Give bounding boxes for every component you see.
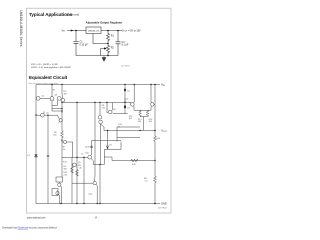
resistor R19 bbox=[131, 159, 138, 162]
transistor Q1 bbox=[36, 97, 40, 101]
resistor R6 bbox=[61, 131, 64, 157]
wire: x155 right vertical bbox=[154, 85, 156, 137]
svg-text:(Continued): (Continued) bbox=[66, 14, 79, 17]
transistor Q2 bbox=[50, 97, 54, 101]
resistor R10 bbox=[76, 170, 79, 177]
svg-text:1.4k: 1.4k bbox=[102, 107, 106, 109]
vertical x62 top bbox=[61, 85, 64, 114]
diode blob lower bbox=[124, 106, 126, 108]
wire: x62 mid bbox=[61, 111, 63, 131]
wire: input bbox=[67, 30, 86, 32]
wire: resistor join bbox=[140, 116, 148, 118]
transistor Q14 bbox=[93, 182, 96, 185]
diode D3 bbox=[106, 131, 108, 150]
svg-text:2k: 2k bbox=[118, 126, 120, 128]
resistor R2 bbox=[107, 44, 110, 56]
transistor Q3 bbox=[57, 97, 61, 101]
wiper arrowhead bbox=[104, 47, 107, 49]
svg-text:40k: 40k bbox=[64, 93, 67, 95]
transistor Q8 bbox=[109, 110, 113, 114]
svg-text:VOUT = 5V + (5V/R1 + IQ) R2: VOUT = 5V + (5V/R1 + IQ) R2 bbox=[31, 64, 58, 66]
wire: bottom rail bbox=[36, 203, 160, 205]
capacitor C1 plates bbox=[74, 41, 79, 43]
wire: Q1 base row bbox=[40, 97, 50, 99]
svg-text:3k: 3k bbox=[79, 167, 81, 169]
wire: q8 collector row bbox=[113, 113, 128, 115]
zener D1 bbox=[35, 155, 38, 158]
wire: x95 vertical bbox=[94, 103, 96, 182]
wire: y140.5 bus bbox=[92, 141, 122, 156]
junction dots equivalent circuit bbox=[35, 84, 156, 205]
tiny labels equivalent circuit bbox=[27, 90, 161, 196]
wire: d3 row bbox=[104, 142, 121, 165]
svg-text:LM340L-05: LM340L-05 bbox=[88, 30, 100, 32]
wire: gnd pin to divider bbox=[93, 34, 108, 44]
wire: wiper of R2 bbox=[101, 49, 105, 56]
wire: y137.5 link bbox=[117, 137, 140, 139]
transistor Q11 bbox=[59, 119, 62, 122]
svg-text:2k: 2k bbox=[124, 101, 126, 103]
wire: x77 vertical bbox=[76, 103, 78, 204]
wire: top rail bbox=[36, 84, 160, 86]
resistor R20 bbox=[154, 136, 157, 176]
transistor Q2L bbox=[41, 113, 45, 117]
capacitor C2 lead bbox=[117, 31, 119, 56]
capacitor C1 lead bbox=[75, 31, 77, 56]
svg-text:0.33 μF: 0.33 μF bbox=[80, 43, 89, 46]
capacitor C1 comp plates bbox=[90, 146, 93, 148]
svg-text:0.1 μF: 0.1 μF bbox=[122, 44, 129, 47]
svg-text:www.national.com: www.national.com bbox=[27, 217, 46, 220]
wire: x107 vertical bbox=[107, 103, 108, 113]
svg-text:C1: C1 bbox=[81, 154, 83, 156]
transistor Q13 box bbox=[52, 189, 58, 196]
transistor Q6 bbox=[98, 116, 102, 120]
transistor Q13 bbox=[56, 192, 59, 195]
svg-text:2k: 2k bbox=[63, 149, 65, 151]
diode blob upper bbox=[124, 89, 126, 91]
svg-text:00778617: 00778617 bbox=[121, 66, 131, 68]
wire: Q17 base from bus bbox=[130, 103, 132, 105]
resistor R9 bbox=[71, 167, 74, 174]
svg-text:Equivalent Circuit: Equivalent Circuit bbox=[29, 75, 68, 80]
wire: x100 vertical top bbox=[99, 103, 101, 116]
transistor Q7 bbox=[99, 120, 103, 124]
page frame bbox=[27, 8, 172, 213]
transistor Q9 bbox=[73, 163, 77, 167]
regulator box U1 bbox=[86, 27, 101, 34]
wire: x84 down bbox=[83, 157, 85, 203]
wire: y108.5 row bbox=[52, 108, 62, 110]
transistor Q18 bbox=[151, 103, 155, 107]
transistor Q17 bbox=[131, 103, 135, 107]
wire: y115 row bbox=[44, 115, 59, 119]
transistor Q7A bbox=[63, 140, 66, 143]
svg-text:5V/R1 > 3 IQ, load regulation: 5V/R1 > 3 IQ, load regulation ≈ (R1+R2)/… bbox=[31, 66, 72, 69]
wire: x117 mid bbox=[116, 127, 118, 142]
note lines under circuit bbox=[31, 64, 72, 69]
wire: x100 down bbox=[99, 165, 101, 204]
wire: y164.5 bbox=[93, 164, 104, 166]
svg-text:Downloaded from Elcodis.com el: Downloaded from Elcodis.com electronic c… bbox=[2, 226, 57, 229]
svg-text:Adjustable Output Regulator: Adjustable Output Regulator bbox=[86, 21, 123, 25]
transistor Q12 bbox=[58, 183, 61, 186]
zener D2 column bbox=[124, 85, 126, 114]
svg-text:00778622: 00778622 bbox=[158, 208, 168, 210]
wire: emitter drops bbox=[52, 101, 58, 109]
wire: y127 link bbox=[117, 126, 140, 128]
wire: y111 row bbox=[52, 109, 62, 112]
wire: x72 down bbox=[71, 157, 73, 203]
svg-text:2.4k: 2.4k bbox=[64, 174, 68, 176]
wire: left vertical bbox=[35, 85, 37, 204]
wire: bus y102.5 bbox=[62, 102, 131, 104]
svg-text:GND: GND bbox=[161, 202, 167, 206]
resistor R1 bbox=[107, 31, 110, 44]
node x48 bbox=[47, 155, 50, 157]
svg-text:20 pF: 20 pF bbox=[85, 147, 91, 149]
wire: output bbox=[101, 30, 122, 32]
wire: out bus y130.5 bbox=[104, 130, 155, 132]
svg-text:VOUT = 5V to 15V: VOUT = 5V to 15V bbox=[122, 29, 141, 32]
wire: x48 vertical bbox=[47, 115, 49, 203]
wire: x112 stub bbox=[104, 157, 112, 161]
resistor R15 bbox=[139, 110, 141, 116]
wire: y160.5 right bbox=[112, 160, 155, 162]
junction dots top circuit bbox=[75, 30, 119, 57]
wire: bottom rail bbox=[76, 55, 118, 57]
transistor Q4 bbox=[61, 98, 65, 102]
svg-text:LM140L/LM340L Series: LM140L/LM340L Series bbox=[19, 10, 23, 47]
terminal labels bbox=[161, 83, 168, 206]
transistor Q10 bbox=[88, 155, 92, 159]
resistor R21 bbox=[154, 176, 157, 204]
ground symbol bbox=[103, 56, 105, 58]
input arrowhead bbox=[71, 30, 74, 32]
wire: emitter join bbox=[134, 109, 151, 111]
resistor R16 bbox=[146, 110, 148, 116]
capacitor C2 plates bbox=[116, 42, 121, 44]
wire: x62 lower bbox=[61, 157, 63, 177]
wire: x143.7 down bbox=[143, 117, 145, 131]
labels top circuit bbox=[62, 29, 142, 49]
resistor R13 box bbox=[56, 177, 63, 182]
